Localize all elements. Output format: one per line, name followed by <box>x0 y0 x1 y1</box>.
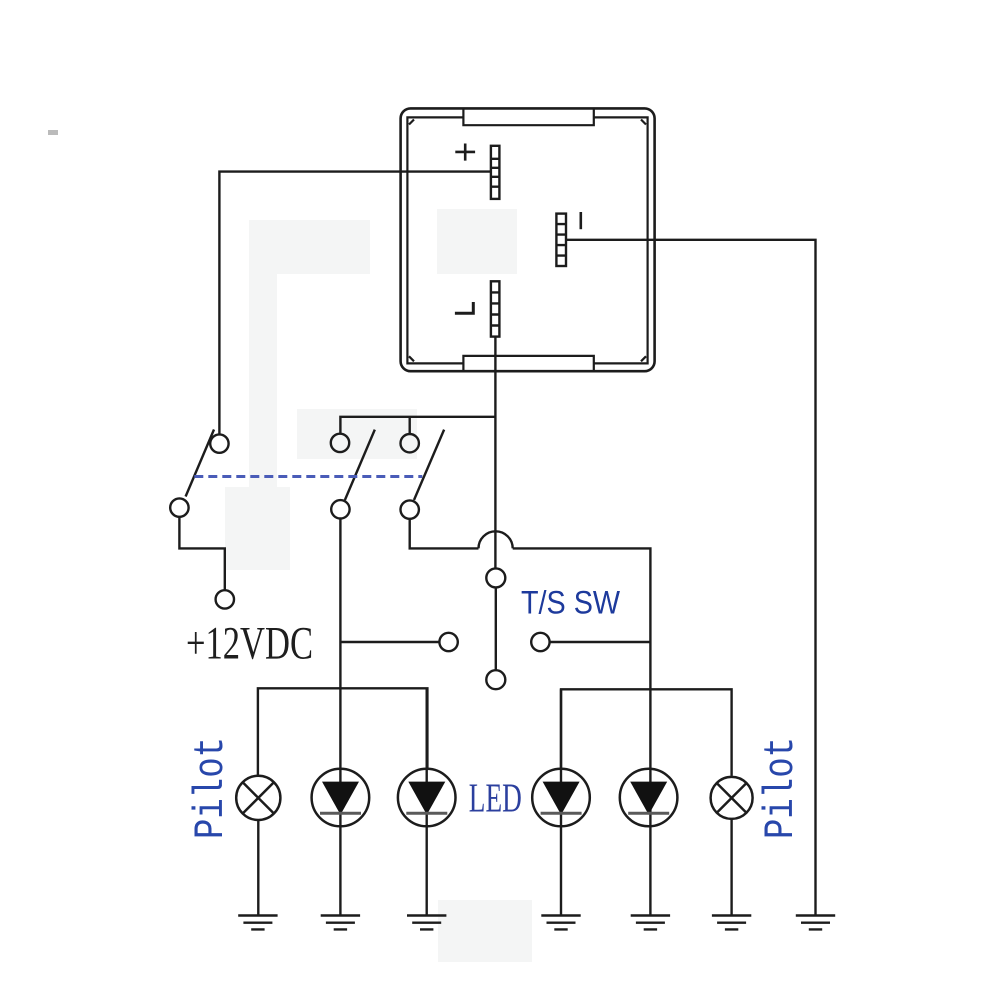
ground GND7 (from pin −) <box>796 916 835 930</box>
wire hop over L wire <box>478 531 512 548</box>
wire S2 bottom to left lamp bank (through LED D1 to ground) <box>339 519 341 916</box>
wire from pin − to right ground rail <box>566 240 816 916</box>
LED D1 <box>312 769 370 827</box>
+12VDC terminal circle <box>216 590 234 608</box>
pilot lamp P1 <box>236 776 280 820</box>
pilot lamp P2 <box>711 777 753 819</box>
relay flasher U1 inner case <box>407 117 647 363</box>
pin + of U1 <box>491 146 500 199</box>
ground GND4 <box>541 916 580 930</box>
switch S2 (middle left) <box>331 430 375 519</box>
svg-text:Pilot: Pilot <box>187 737 235 839</box>
LED D2 <box>398 688 456 915</box>
label + (plus mark inside relay) <box>455 144 475 161</box>
svg-text:LED: LED <box>469 775 522 821</box>
LED D4 <box>620 769 678 827</box>
label − (minus mark inside relay) <box>579 212 582 229</box>
faint background patches (decorative) placed first <box>225 209 532 962</box>
right lamp rail <box>561 689 732 776</box>
label L (rotated L mark inside relay) <box>455 302 473 313</box>
switch S1 (left, +12VDC feed) <box>170 430 228 517</box>
ground GND2 <box>321 916 360 930</box>
wire S3 bottom to node over hop, down right side <box>410 519 651 916</box>
mechanical link (blue dashed) <box>194 475 422 478</box>
left lamp rail <box>258 688 428 776</box>
T/S SW right throw terminal <box>531 633 650 651</box>
ground GND1 <box>238 916 277 930</box>
wire from pin L down to T/S SW pole <box>494 337 496 569</box>
pin − of U1 <box>556 214 566 266</box>
wire P1 to ground <box>257 820 259 916</box>
wire from S1 to +12VDC terminal <box>179 517 224 590</box>
relay case top notch <box>463 108 593 126</box>
ground GND6 <box>712 916 751 930</box>
svg-text:+12VDC: +12VDC <box>186 618 313 670</box>
svg-text:T/S SW: T/S SW <box>521 585 621 621</box>
LED D3 <box>532 689 590 915</box>
relay case bottom notch <box>463 356 593 372</box>
T/S SW left throw terminal <box>340 633 457 651</box>
T/S SW pole terminal top <box>486 568 505 689</box>
switch S3 (middle right) <box>401 430 445 519</box>
wire from pin + to switch S1 <box>219 172 491 435</box>
ground GND3 <box>407 916 446 930</box>
wire rail feeding switches S2 S3 <box>340 417 495 434</box>
ground GND5 <box>631 916 670 930</box>
wire P2 to ground <box>730 819 732 916</box>
relay flasher U1 outer case <box>401 108 655 371</box>
pin L of U1 <box>491 281 500 336</box>
svg-text:Pilot: Pilot <box>757 737 805 839</box>
